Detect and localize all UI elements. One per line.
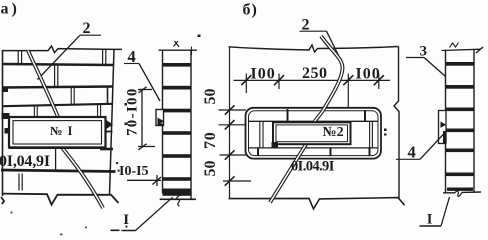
vertical joint c3 x72 bbox=[71, 88, 74, 106]
svg-text:50: 50 bbox=[202, 89, 219, 105]
vertical joint c4 x99 bbox=[98, 105, 101, 117]
wall a: bottom line with V break bbox=[3, 194, 119, 205]
left dim chain ticks (panel b) bbox=[219, 109, 247, 111]
box No1 bottom emphasis bbox=[9, 146, 106, 149]
wall b: right edge with z-break bbox=[394, 47, 399, 200]
brick joint h3 (y105) bbox=[3, 104, 114, 106]
niche v-joint right strip bbox=[370, 122, 373, 148]
vertical joint c4 x35 bbox=[34, 106, 37, 117]
dim 70-100 line bbox=[141, 90, 143, 147]
niche outer rounded rect bbox=[246, 108, 382, 159]
svg-text:0I.04.9I: 0I.04.9I bbox=[291, 159, 335, 175]
box No1 left flange bbox=[5, 128, 10, 134]
niche brick line below box bbox=[249, 147, 378, 149]
side column b: left edge bbox=[445, 50, 447, 193]
cable (panel a) upper run, double line bbox=[28, 51, 58, 118]
artifact dots bbox=[116, 162, 118, 164]
svg-text:70-I00: 70-I00 bbox=[125, 87, 141, 136]
svg-text:№ I: № I bbox=[50, 124, 73, 138]
wall b: top line with break bbox=[229, 45, 399, 52]
speck dot bbox=[198, 35, 201, 38]
side column b: embedded box protrusion bbox=[439, 111, 447, 144]
wall a: left edge bbox=[2, 50, 4, 196]
top dim line (panel b) bbox=[234, 79, 391, 81]
svg-text:№2: №2 bbox=[323, 125, 344, 140]
box No2 corner blob bbox=[272, 142, 279, 149]
svg-text:50: 50 bbox=[202, 161, 219, 177]
wall b: bottom line with V break bbox=[229, 198, 405, 209]
side column b bottom cap line with squiggle break bbox=[443, 191, 481, 194]
niche inner rounded rect bbox=[249, 111, 379, 156]
dim slashes bbox=[241, 75, 251, 85]
box No1 right beak bbox=[106, 120, 114, 130]
cable (panel a) lower run, double line bbox=[62, 148, 103, 209]
svg-text:250: 250 bbox=[302, 65, 328, 82]
svg-text:I0-I5: I0-I5 bbox=[119, 164, 149, 179]
side column a: left edge bbox=[162, 50, 164, 194]
side column b joints bbox=[446, 62, 475, 66]
side column a: embedded box protrusion bbox=[156, 110, 164, 126]
brick joint h1 (y64) bbox=[3, 64, 114, 65]
brick joint right of box bottom (y149) bbox=[100, 148, 113, 151]
svg-text:0I,04,9I: 0I,04,9I bbox=[0, 153, 50, 170]
cable (panel b) upper run bbox=[314, 36, 343, 123]
svg-text:4: 4 bbox=[408, 143, 416, 162]
svg-text:I00: I00 bbox=[356, 66, 381, 83]
niche v-joints bottom strip bbox=[257, 148, 259, 156]
side column b: right edge bbox=[473, 50, 475, 193]
side column a: right edge bbox=[190, 50, 192, 199]
vertical joint bottom course x20 bbox=[19, 174, 22, 191]
niche v-joints top strip bbox=[287, 109, 289, 121]
wall a: break tick bottom-left bbox=[1, 197, 4, 204]
svg-text:2: 2 bbox=[83, 20, 91, 37]
side column a baseline bbox=[160, 198, 196, 200]
leader line label 2 to cable (panel a) bbox=[38, 35, 81, 79]
box No1 inner bbox=[13, 121, 102, 144]
side column a: top break x-mark bbox=[174, 41, 180, 47]
dim 10-15 line bbox=[127, 179, 161, 181]
vertical joint c1 x19 bbox=[18, 51, 21, 64]
vertical joint c3 x108 bbox=[107, 87, 109, 104]
wall b: left edge / dim line bbox=[229, 47, 231, 199]
side column a baseline squiggle break bbox=[177, 196, 180, 207]
box No2 outer bbox=[273, 122, 351, 144]
svg-text:70: 70 bbox=[202, 131, 219, 149]
extension stubs bbox=[245, 74, 247, 94]
niche brick line above box bbox=[249, 120, 378, 122]
dark half-brick left edge (y113) bbox=[2, 113, 10, 119]
vertical joint date row x55 bbox=[55, 148, 57, 170]
leader underline for label 2 (panel a) bbox=[80, 34, 101, 36]
brick joint right of box (y131) bbox=[106, 131, 113, 133]
box No1 outer bbox=[9, 117, 106, 148]
wall a: right edge bbox=[110, 50, 115, 196]
box No2 inner bbox=[276, 125, 348, 142]
svg-text:а): а) bbox=[1, 1, 20, 18]
side column b: top cap bbox=[442, 49, 482, 50]
brick joint under date row (y170) bbox=[1, 170, 116, 172]
svg-text:I00: I00 bbox=[251, 66, 276, 83]
vertical joint c1 x104 bbox=[103, 50, 106, 64]
brick joint h2 (y87) bbox=[3, 87, 114, 88]
dark half-brick left edge (y87) bbox=[2, 87, 8, 93]
side column a joints bbox=[163, 63, 192, 67]
cable (panel b) lower run bbox=[270, 144, 306, 202]
side column a: right edge cross tick bbox=[191, 47, 193, 56]
niche v-joint left strip bbox=[260, 122, 263, 148]
wall a: top line with break bbox=[3, 46, 123, 53]
label I (panel a) leader bbox=[136, 197, 173, 230]
vertical joint c2 x56 bbox=[55, 65, 58, 87]
svg-text:б): б) bbox=[243, 2, 258, 19]
side column a: top cap line bbox=[159, 49, 198, 51]
side column b cap break mark bbox=[450, 43, 459, 48]
